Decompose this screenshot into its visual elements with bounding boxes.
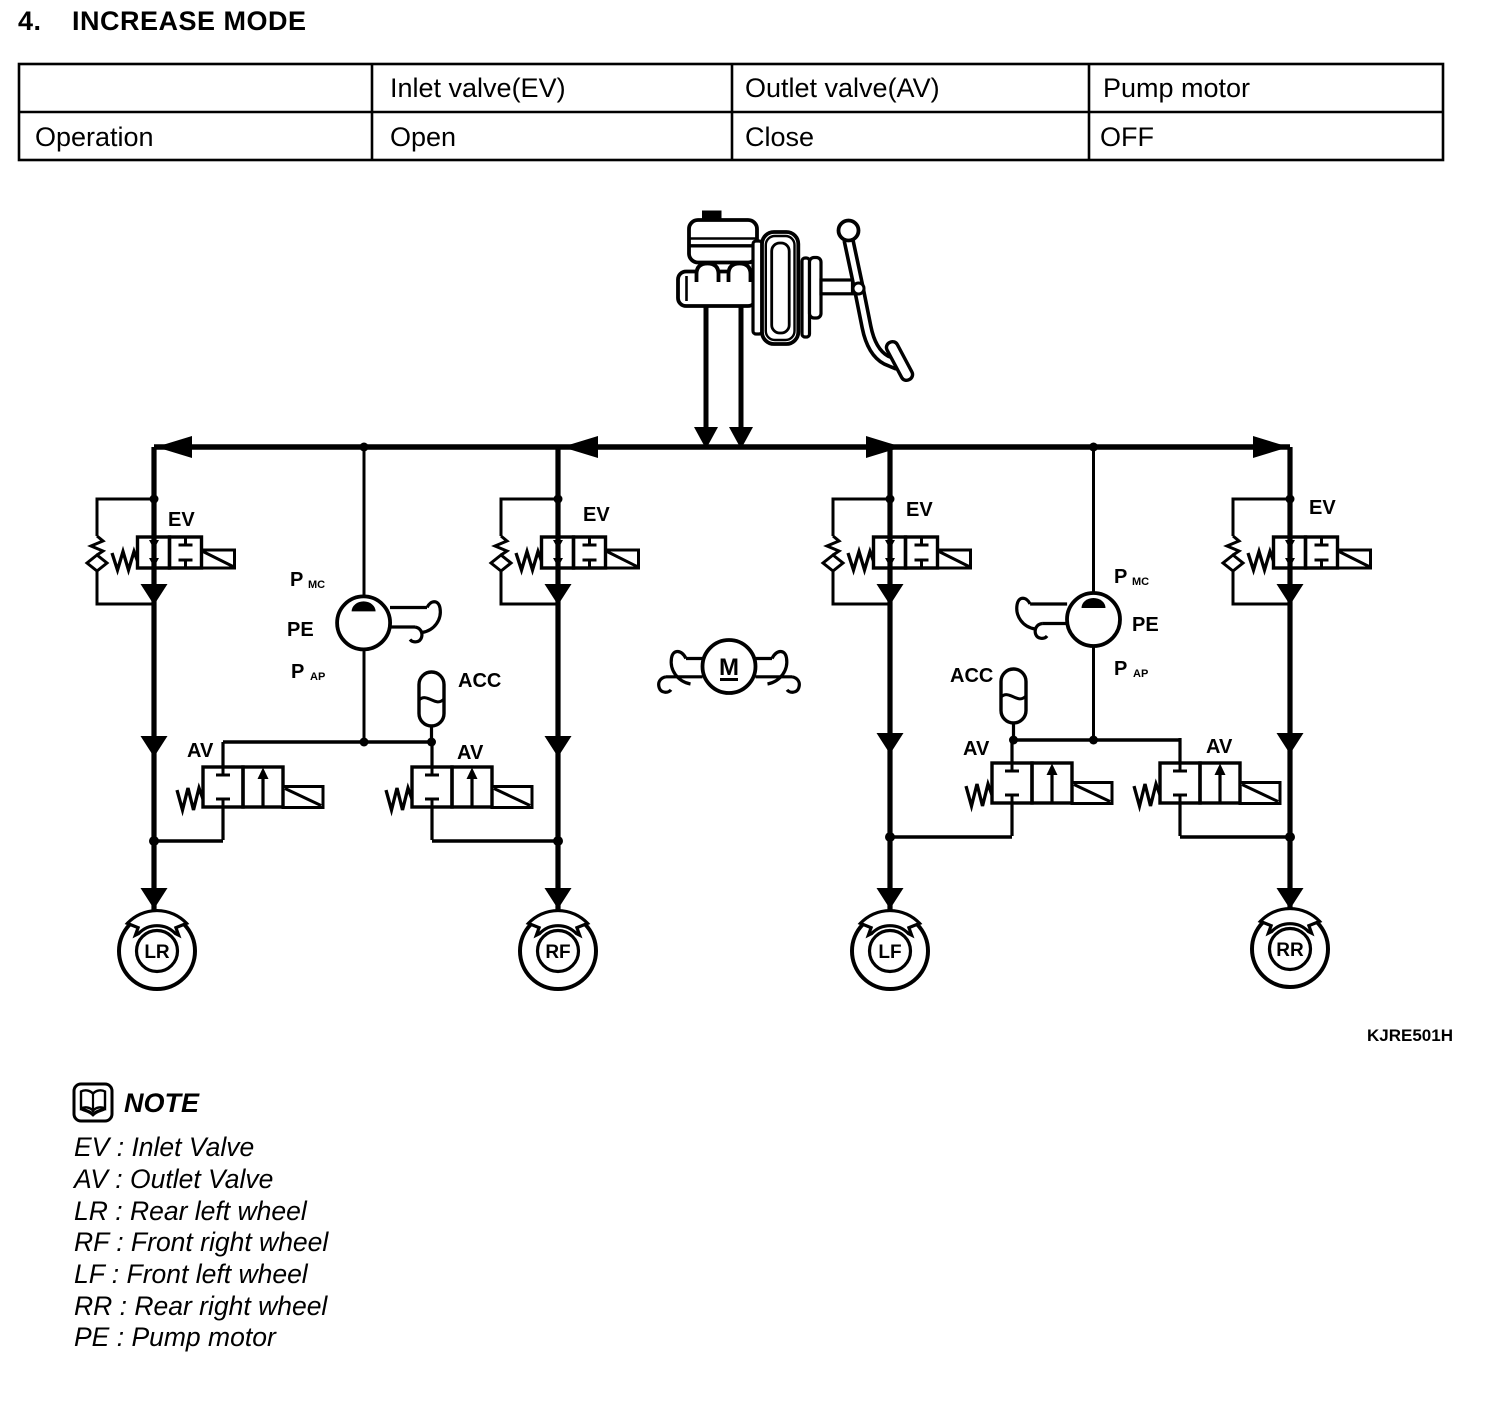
- node RF return junction: [553, 836, 563, 846]
- table grid: [19, 64, 1443, 160]
- wire RR AV return rail: [1180, 835, 1290, 838]
- svg-text:LF : Front left wheel: LF : Front left wheel: [74, 1259, 309, 1289]
- wire left AV rail horizontal: [223, 740, 432, 743]
- svg-text:AV: AV: [963, 738, 990, 760]
- arrow LR to wheel: [141, 888, 168, 909]
- svg-text:Close: Close: [745, 122, 814, 152]
- svg-text:PE: PE: [287, 619, 314, 641]
- arrow bus left end: [156, 436, 192, 458]
- accumulator ACC left: [419, 672, 444, 726]
- pedal arm: [849, 240, 899, 365]
- pedal pivot: [839, 221, 859, 241]
- master cylinder assembly: [678, 211, 914, 383]
- wire left pump outlet: [363, 649, 366, 742]
- svg-text:OFF: OFF: [1100, 122, 1154, 152]
- wire LR AV return rail: [154, 839, 223, 842]
- wire master cylinder secondary drop: [739, 306, 744, 430]
- svg-text:LR : Rear left wheel: LR : Rear left wheel: [74, 1196, 308, 1226]
- wheel LF: [852, 911, 928, 989]
- arrow LF mid: [877, 733, 904, 754]
- wheel RR: [1252, 909, 1328, 987]
- valve AV (LF circuit): [966, 738, 1112, 836]
- svg-text:PE: PE: [1132, 614, 1159, 636]
- svg-text:RR : Rear right wheel: RR : Rear right wheel: [74, 1291, 328, 1321]
- svg-text:AV : Outlet Valve: AV : Outlet Valve: [72, 1164, 273, 1194]
- wire right pump outlet: [1092, 646, 1095, 740]
- wire right AV rail horizontal: [1012, 738, 1180, 741]
- booster shell: [762, 232, 798, 344]
- wire RF branch vertical: [555, 447, 560, 913]
- node RR return junction: [1285, 832, 1295, 842]
- svg-text:P: P: [1114, 566, 1127, 588]
- node LF return junction: [885, 832, 895, 842]
- valve EV (RR circuit): [1223, 495, 1371, 606]
- MC outlet arch right: [729, 264, 751, 283]
- svg-text:EV: EV: [168, 509, 195, 531]
- svg-text:EV: EV: [906, 499, 933, 521]
- arrow RF mid: [545, 736, 572, 757]
- reservoir cap: [702, 211, 722, 221]
- svg-text:P: P: [291, 661, 304, 683]
- svg-text:P: P: [1114, 658, 1127, 680]
- node LR return junction: [149, 836, 159, 846]
- MC outlet arch left: [697, 264, 719, 283]
- node right ACC junction: [1009, 736, 1018, 745]
- wire LF branch vertical: [887, 447, 892, 913]
- svg-text:RF : Front right wheel: RF : Front right wheel: [74, 1227, 329, 1257]
- accumulator ACC right: [1001, 669, 1026, 723]
- wire left pump suction from bus: [363, 447, 366, 597]
- svg-text:AV: AV: [457, 742, 484, 764]
- svg-text:RR: RR: [1276, 940, 1304, 961]
- pedal pad: [885, 340, 915, 383]
- svg-text:PE : Pump motor: PE : Pump motor: [74, 1322, 277, 1352]
- wire main bus: [154, 444, 1290, 450]
- svg-text:Open: Open: [390, 122, 456, 152]
- svg-text:MC: MC: [308, 579, 325, 591]
- booster band 2: [810, 258, 822, 319]
- arrow RR to wheel: [1277, 888, 1304, 909]
- wire right pump suction from bus: [1092, 447, 1095, 594]
- arrow bus toward RF: [562, 436, 598, 458]
- wire LF AV return rail: [890, 835, 1012, 838]
- svg-text:EV: EV: [583, 504, 610, 526]
- arrow MC drop right: [729, 427, 753, 449]
- arrow RF to wheel: [545, 888, 572, 909]
- arrow RR mid: [1277, 733, 1304, 754]
- arrow LF to wheel: [877, 888, 904, 909]
- svg-text:KJRE501H: KJRE501H: [1367, 1026, 1453, 1045]
- svg-text:EV: EV: [1309, 497, 1336, 519]
- wire left ACC stub: [430, 726, 433, 742]
- wire right ACC stub: [1012, 722, 1015, 740]
- node right pump tap on bus: [1089, 443, 1098, 452]
- wire master cylinder primary drop: [704, 306, 709, 430]
- pushrod: [821, 280, 853, 294]
- svg-text:NOTE: NOTE: [124, 1088, 200, 1118]
- node left pump tap on bus: [360, 443, 369, 452]
- wire LR branch vertical: [151, 447, 156, 913]
- wire RR branch vertical: [1287, 447, 1292, 913]
- svg-text:AV: AV: [187, 740, 214, 762]
- svg-text:LR: LR: [144, 942, 170, 963]
- svg-text:RF: RF: [545, 942, 570, 963]
- node left ACC junction: [427, 738, 436, 747]
- valve AV (RR circuit): [1134, 738, 1280, 836]
- svg-text:Inlet valve(EV): Inlet valve(EV): [390, 73, 566, 103]
- booster band 1: [802, 258, 810, 337]
- arrow bus right end: [1253, 436, 1289, 458]
- MC body: [678, 272, 756, 307]
- wire RF AV return rail: [432, 839, 558, 842]
- junction dots: [149, 443, 1295, 847]
- svg-text:MC: MC: [1132, 576, 1149, 588]
- valve AV (LR circuit): [177, 742, 323, 840]
- svg-text:INCREASE MODE: INCREASE MODE: [72, 6, 307, 36]
- booster plate: [753, 241, 762, 334]
- svg-text:AP: AP: [1133, 668, 1148, 680]
- arrow MC drop left: [694, 427, 718, 449]
- arrow LR mid: [141, 736, 168, 757]
- flow arrowheads: [141, 427, 1304, 909]
- wheel RF: [520, 911, 596, 989]
- svg-text:ACC: ACC: [458, 670, 501, 692]
- svg-text:4.: 4.: [18, 6, 42, 36]
- svg-text:Operation: Operation: [35, 122, 154, 152]
- arrow bus toward LF: [866, 436, 902, 458]
- svg-text:LF: LF: [878, 942, 901, 963]
- svg-text:ACC: ACC: [950, 665, 993, 687]
- svg-text:Outlet valve(AV): Outlet valve(AV): [745, 73, 940, 103]
- valve AV (RF circuit): [386, 742, 532, 840]
- node right pump to AV rail: [1089, 736, 1098, 745]
- svg-text:Pump motor: Pump motor: [1103, 73, 1250, 103]
- svg-text:AV: AV: [1206, 736, 1233, 758]
- valve EV (RF circuit): [491, 495, 639, 606]
- valve EV (LR circuit): [87, 495, 235, 606]
- valve EV (LF circuit): [823, 495, 971, 606]
- reservoir: [689, 220, 757, 263]
- svg-text:EV : Inlet Valve: EV : Inlet Valve: [74, 1132, 254, 1162]
- svg-text:P: P: [290, 569, 303, 591]
- pushrod joint: [853, 283, 864, 294]
- motor M: [659, 640, 800, 693]
- pump PE right: [1067, 593, 1120, 646]
- wheel LR: [119, 911, 195, 989]
- node left pump to AV rail: [360, 738, 369, 747]
- svg-text:AP: AP: [310, 671, 325, 683]
- note book icon: [74, 1084, 112, 1121]
- svg-text:M: M: [719, 654, 739, 681]
- pump PE left: [337, 596, 390, 649]
